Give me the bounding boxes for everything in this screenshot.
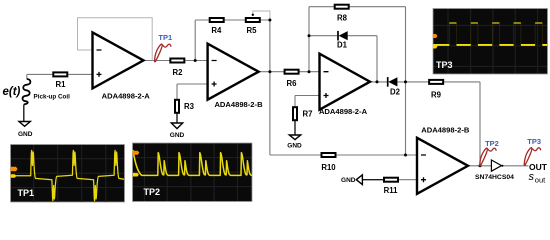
svg-text:R9: R9 [431, 91, 442, 100]
svg-text:R8: R8 [337, 14, 348, 23]
svg-text:out: out [535, 175, 546, 184]
svg-text:ADA4898-2-B: ADA4898-2-B [214, 100, 263, 109]
svg-text:GND: GND [18, 131, 33, 138]
svg-text:TP3: TP3 [527, 137, 541, 146]
svg-text:GND: GND [170, 132, 185, 139]
svg-text:R2: R2 [173, 68, 184, 77]
svg-text:ADA4898-2-B: ADA4898-2-B [421, 126, 470, 135]
svg-text:ADA4898-2-A: ADA4898-2-A [102, 91, 151, 100]
svg-text:TP1: TP1 [158, 33, 172, 42]
svg-text:GND: GND [287, 143, 302, 150]
svg-text:R7: R7 [303, 110, 313, 119]
svg-text:TP1: TP1 [18, 188, 35, 198]
svg-text:R6: R6 [287, 79, 298, 88]
svg-text:R3: R3 [184, 102, 195, 111]
svg-text:R1: R1 [56, 80, 67, 89]
svg-text:TP2: TP2 [144, 187, 161, 197]
svg-text:TP2: TP2 [485, 139, 499, 148]
svg-text:Pick-up Coil: Pick-up Coil [34, 93, 71, 100]
svg-text:D2: D2 [390, 87, 401, 96]
svg-text:e(t): e(t) [3, 86, 21, 98]
svg-text:R11: R11 [384, 186, 399, 195]
svg-text:R5: R5 [247, 26, 258, 35]
svg-text:s: s [529, 171, 535, 183]
svg-text:GND: GND [341, 177, 356, 184]
svg-text:SN74HCS04: SN74HCS04 [475, 174, 514, 181]
svg-text:ADA4898-2-A: ADA4898-2-A [319, 107, 368, 116]
svg-text:TP3: TP3 [436, 60, 453, 70]
svg-text:D1: D1 [337, 41, 348, 50]
svg-text:R10: R10 [321, 163, 336, 172]
svg-text:R4: R4 [211, 26, 222, 35]
